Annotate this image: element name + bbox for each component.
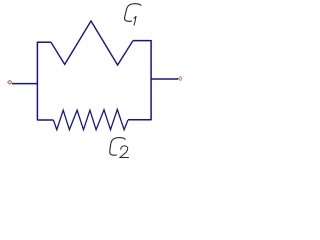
wire: bottom rail right segment [128,119,151,121]
node: right terminal junction dot [177,78,179,80]
wire: top rail right segment [133,40,151,42]
label G2 subscript 2 [120,146,129,158]
label G1 [125,4,141,22]
wire: right vertical bus [150,40,152,120]
wire: left terminal lead [12,83,37,85]
node: left terminal [8,80,12,84]
wire: top rail left segment [37,41,51,43]
label G1 subscript 1 [134,16,136,25]
label G2 [110,138,126,156]
resistor G1 (top zigzag) [51,21,133,65]
wire: bottom rail left segment [37,119,53,121]
resistor G2 (bottom zigzag) [53,109,128,129]
node: right terminal [179,76,182,80]
wire: right terminal lead [151,78,178,80]
wire: left vertical bus [36,42,38,121]
